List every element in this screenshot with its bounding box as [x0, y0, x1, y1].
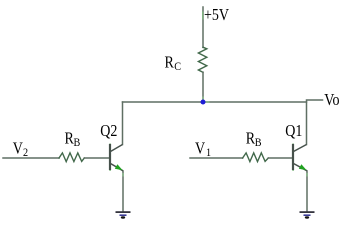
svg-text:B: B [255, 136, 262, 149]
svg-text:Vo: Vo [324, 91, 340, 109]
svg-text:Q2: Q2 [100, 122, 117, 140]
svg-text:V: V [13, 139, 23, 157]
svg-text:R: R [165, 53, 175, 71]
svg-text:Q1: Q1 [285, 122, 302, 140]
svg-text:2: 2 [23, 146, 28, 159]
svg-text:+5V: +5V [204, 6, 229, 24]
svg-text:C: C [174, 60, 181, 73]
svg-text:B: B [74, 136, 81, 149]
svg-text:1: 1 [206, 146, 211, 159]
svg-text:V: V [195, 139, 205, 157]
